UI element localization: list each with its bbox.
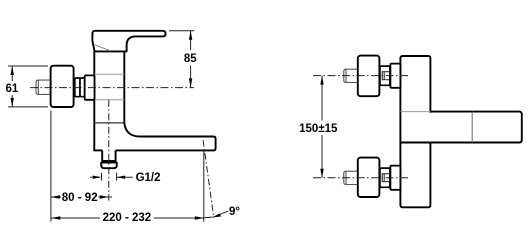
lever handle: [92, 31, 165, 52]
dimension 150+-15: line: [321, 76, 323, 121]
spray axis 9 deg (slanted dash-dot): [203, 140, 214, 216]
svg-text:9°: 9°: [229, 206, 240, 218]
spout block white fill (covers body edge): [429, 113, 521, 142]
svg-text:G1/2: G1/2: [136, 172, 161, 184]
wall reference extension line: [50, 111, 52, 222]
body (front): [400, 56, 430, 207]
svg-text:85: 85: [184, 53, 197, 65]
wall union stub (into wall): [36, 80, 51, 94]
spout block top line across body (thin): [400, 111, 430, 113]
outlet thread relief line: [102, 161, 115, 163]
bottom inlet adapter: [390, 166, 400, 190]
spout (side view): [116, 123, 216, 151]
dimension 61: extension lines: [8, 65, 48, 67]
dimension 220-232: arrows: [51, 216, 60, 219]
9 deg leader with arrow: [213, 211, 229, 218]
body bottom edge: [93, 149, 102, 151]
top union stub: [344, 69, 358, 82]
bottom union stub: [344, 171, 358, 184]
9 deg angle arc: [204, 216, 212, 219]
bottom stub cap: [345, 171, 347, 184]
top inlet adapter: [390, 64, 400, 88]
spout block outline (front): [430, 112, 521, 143]
wall flange (escutcheon): [51, 66, 74, 107]
top wall flange: [358, 56, 380, 97]
G1/2 arrows: [90, 176, 100, 178]
dimension 80-92: centerline crossing tick: [110, 196, 114, 198]
centerline top inlet: [313, 75, 410, 77]
outlet collar: [101, 163, 117, 169]
centerline vertical (outlet axis): [108, 100, 110, 201]
dimension 85: line: [190, 31, 192, 50]
dimension 80-92: line: [51, 196, 61, 198]
top union nut: [380, 66, 390, 85]
bottom wall flange: [358, 158, 380, 197]
centerline horizontal (inlet axis): [30, 87, 194, 89]
bottom union nut: [380, 168, 390, 187]
bottom thread stub inside nut: [382, 174, 390, 182]
stub end cap: [37, 80, 39, 94]
dimension 61: line: [11, 66, 13, 81]
centerline bottom inlet: [313, 177, 410, 179]
body section line upper (thin): [94, 73, 124, 75]
spout block bottom line across body: [400, 142, 430, 144]
union nut rear half: [80, 78, 85, 97]
union nut front half: [75, 78, 80, 97]
body (cartridge housing): [94, 51, 124, 150]
dimension 85: arrows: [189, 31, 192, 40]
body ring line at spout root: [94, 122, 124, 124]
dimension 220-232: line: [51, 217, 100, 219]
spout end extension line (vertical): [203, 151, 205, 222]
spout section divider: [471, 112, 473, 143]
outlet fitting G1/2 (below body): [102, 150, 115, 161]
inlet adapter: [85, 75, 95, 99]
G1/2 extension ticks: [101, 173, 103, 181]
lever escutcheon seam (thin diagonal): [95, 45, 111, 51]
svg-text:220 - 232: 220 - 232: [103, 212, 152, 224]
body section line lower (thin): [94, 99, 124, 101]
top thread stub inside nut: [382, 72, 390, 80]
svg-text:80 - 92: 80 - 92: [62, 192, 98, 204]
svg-text:61: 61: [6, 83, 19, 95]
dimension 150+-15: arrows: [320, 76, 323, 85]
top stub cap: [345, 69, 347, 82]
dimension 85: extension line: [169, 30, 194, 32]
svg-text:150±15: 150±15: [299, 123, 338, 135]
dimension 80-92: arrows: [51, 195, 60, 198]
dimension 61: arrows: [11, 66, 14, 75]
